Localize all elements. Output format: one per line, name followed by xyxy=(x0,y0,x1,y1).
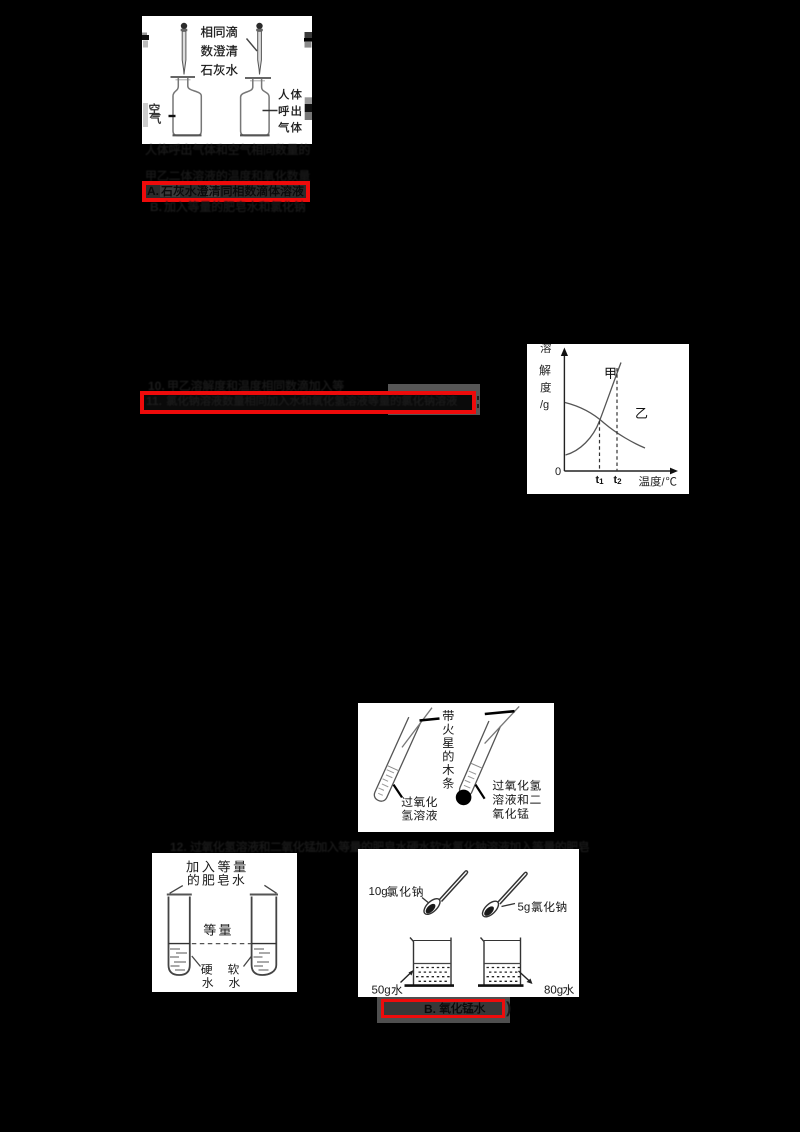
y axis xyxy=(563,353,565,471)
liquid right xyxy=(252,943,277,945)
label 等量 xyxy=(204,924,216,936)
wood splint left xyxy=(402,708,432,748)
vertical caption 带火星的木条 xyxy=(443,710,454,721)
right edge marks upper xyxy=(305,32,313,38)
faint caption line A xyxy=(145,143,320,157)
x-axis label 温度/℃ xyxy=(639,476,650,486)
wood splint right xyxy=(485,706,520,743)
dropper left xyxy=(181,23,187,29)
label 乙 xyxy=(636,408,647,418)
left edge dash mark xyxy=(142,33,147,36)
label exhaled gas 人体呼出气体 xyxy=(263,110,278,112)
curve jia 甲 rising xyxy=(566,363,622,456)
dashed line t1 xyxy=(599,421,601,471)
light patches in box 1 xyxy=(160,185,180,197)
spoon right xyxy=(480,898,501,919)
tick marks after box 2 xyxy=(477,396,480,400)
pour line left xyxy=(170,886,183,894)
pointer to right dropper xyxy=(247,39,258,52)
test tube right with H2O2+MnO2 xyxy=(458,721,501,798)
figure 4: hard vs soft water tubes xyxy=(152,853,297,992)
pointer right spoon xyxy=(502,904,516,907)
label air 空气 xyxy=(143,103,148,127)
closing paren mark xyxy=(506,1000,511,1018)
liquid left xyxy=(169,943,190,945)
red answer box 1 xyxy=(142,181,310,203)
pointer to right label xyxy=(476,785,485,799)
figure 4 white background xyxy=(152,853,297,992)
figure 3 white background xyxy=(358,703,554,832)
test tube left with H2O2 xyxy=(372,717,420,803)
pointer to 软水 xyxy=(244,956,252,967)
spoon left xyxy=(421,896,442,917)
svg-text:A.: A. xyxy=(147,184,159,198)
gray highlight band xyxy=(388,384,480,415)
figure 3: hydrogen peroxide test tubes xyxy=(358,703,554,832)
label 过氧化氢溶液 xyxy=(402,796,413,807)
svg-text:80g: 80g xyxy=(544,985,563,997)
arrow to left beaker xyxy=(401,972,413,983)
svg-text:11.: 11. xyxy=(146,394,162,408)
beaker left base xyxy=(405,984,455,987)
test tube left (hard water) xyxy=(167,894,192,896)
curve yi 乙 falling xyxy=(565,403,645,449)
figure 2 white background xyxy=(527,344,689,494)
caption: same drops of clear limewater xyxy=(201,26,212,37)
caption 加入等量的肥皂水 xyxy=(186,860,198,872)
faint question line xyxy=(170,840,590,854)
black dash pointer xyxy=(420,719,440,721)
dropper right xyxy=(256,23,262,29)
svg-text:B.: B. xyxy=(150,200,162,214)
figure 1: limewater bottles xyxy=(142,16,312,144)
svg-text:B.: B. xyxy=(424,1002,436,1016)
svg-text:50g: 50g xyxy=(372,985,391,997)
pour line right xyxy=(264,885,276,893)
svg-text:/g: /g xyxy=(540,399,549,411)
red answer box 3 xyxy=(381,999,505,1018)
faint question 10 line xyxy=(148,379,348,393)
y-axis label 溶解度/g xyxy=(540,342,551,353)
gray band xyxy=(377,997,510,1023)
beaker right base xyxy=(478,984,524,987)
bottle right (exhaled gas) xyxy=(245,77,271,79)
right edge marks lower xyxy=(305,97,312,104)
pointer left spoon xyxy=(422,898,430,905)
svg-text:10g: 10g xyxy=(369,886,388,898)
svg-text:12.: 12. xyxy=(170,840,187,854)
label 硬水 xyxy=(201,964,212,974)
figure 5 white background xyxy=(358,849,579,997)
pointer to 硬水 xyxy=(192,956,201,967)
svg-text:5g: 5g xyxy=(518,902,531,914)
faint line C xyxy=(150,200,320,214)
arrow to 80g label xyxy=(519,971,531,982)
faint line B xyxy=(145,169,320,183)
dashed equal-level line xyxy=(192,943,252,945)
red answer box 2 xyxy=(140,391,476,414)
pointer to left label xyxy=(394,785,403,798)
x axis xyxy=(564,470,674,472)
bottle left (air) xyxy=(171,76,196,78)
figure 2: solubility curves graph xyxy=(527,344,689,494)
svg-text:0: 0 xyxy=(555,466,561,478)
test tube right (soft water) xyxy=(250,894,278,896)
label 软水 xyxy=(228,964,239,975)
dashed line t2 xyxy=(616,368,618,471)
MnO2 black ball xyxy=(456,790,472,806)
figure 5: NaCl dissolving beakers xyxy=(358,849,579,997)
label 甲 xyxy=(606,368,616,379)
beaker left xyxy=(410,938,451,985)
beaker right xyxy=(481,938,521,985)
black bar right xyxy=(485,711,515,714)
figure 1 white background xyxy=(142,16,312,144)
